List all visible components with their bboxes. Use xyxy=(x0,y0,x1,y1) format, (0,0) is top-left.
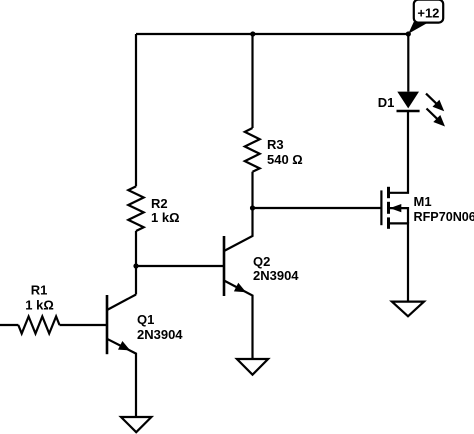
svg-text:R3: R3 xyxy=(267,137,284,152)
svg-text:Q2: Q2 xyxy=(253,254,270,269)
svg-text:M1: M1 xyxy=(414,194,432,209)
svg-text:2N3904: 2N3904 xyxy=(253,268,299,283)
svg-text:1 kΩ: 1 kΩ xyxy=(25,297,54,312)
svg-text:RFP70N06: RFP70N06 xyxy=(414,210,474,224)
svg-text:1 kΩ: 1 kΩ xyxy=(151,210,180,225)
svg-text:+12: +12 xyxy=(417,6,439,21)
svg-text:2N3904: 2N3904 xyxy=(137,327,183,342)
svg-text:R1: R1 xyxy=(31,282,48,297)
svg-text:Q1: Q1 xyxy=(137,312,154,327)
svg-text:540 Ω: 540 Ω xyxy=(267,152,303,167)
svg-text:D1: D1 xyxy=(378,95,395,110)
svg-text:R2: R2 xyxy=(151,196,168,211)
